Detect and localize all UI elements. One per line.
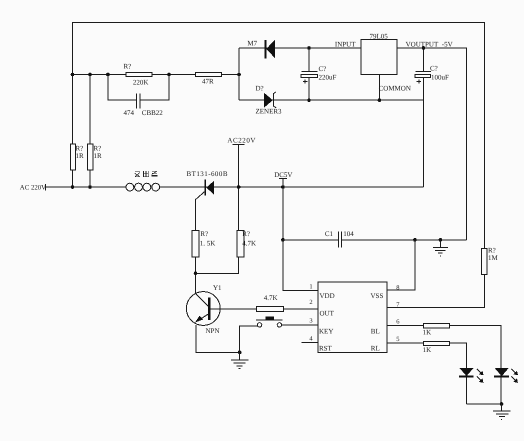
wire regulator output to V9 down <box>397 48 467 240</box>
node dot H2 x170 <box>167 73 171 77</box>
LED D left arrows <box>477 369 484 383</box>
svg-text:VOUTPUT -5V: VOUTPUT -5V <box>406 40 453 48</box>
svg-text:1K: 1K <box>423 329 432 337</box>
svg-text:INPUT: INPUT <box>335 40 356 48</box>
label 发热丝 (CJK approximated) <box>135 171 158 177</box>
resistor 4.7K horizontal <box>257 306 284 311</box>
svg-text:BL: BL <box>371 327 380 335</box>
terminal tick AC220V <box>233 143 245 145</box>
node dot 283,240 <box>281 238 285 242</box>
node dot 283,187 <box>281 185 285 189</box>
svg-text:1R: 1R <box>76 152 85 160</box>
node dot 195,273 <box>194 272 198 276</box>
svg-text:DC5V: DC5V <box>274 171 292 179</box>
svg-text:NPN: NPN <box>206 327 220 335</box>
wire DC5V stem down to pin1 <box>283 179 318 291</box>
wire AC220V stem down through 4.7K resistor <box>238 144 240 273</box>
svg-text:AC220V: AC220V <box>227 137 256 145</box>
LED D left <box>459 368 474 377</box>
capacitor C1 104 plates <box>339 232 342 248</box>
switch contacts <box>257 323 281 327</box>
node dot 309,48 <box>307 46 311 50</box>
ground G2 <box>231 352 248 368</box>
svg-text:1M: 1M <box>488 254 499 262</box>
wire AC main rail y187 <box>45 186 423 188</box>
svg-text:ZENER3: ZENER3 <box>256 108 283 116</box>
resistor 47R <box>195 73 221 77</box>
svg-text:COMMON: COMMON <box>379 84 411 92</box>
svg-text:VDD: VDD <box>320 292 335 300</box>
svg-text:220K: 220K <box>133 79 149 87</box>
wire emitter down and across <box>196 325 240 352</box>
wire switch right to pin3 <box>282 324 318 326</box>
node dot H2 x90 <box>88 73 92 77</box>
svg-text:Y1: Y1 <box>213 284 222 292</box>
wire zener line y100 <box>239 99 424 101</box>
op-amp U1 79L05 regulator box <box>361 40 397 75</box>
ground G1 <box>433 240 448 256</box>
svg-text:474: 474 <box>124 109 135 117</box>
svg-text:104: 104 <box>343 230 354 238</box>
wire rectifier left leg <box>238 48 240 100</box>
transistor Y1 NPN <box>186 292 220 326</box>
resistor R? 1R right <box>88 144 93 170</box>
wire C1 rail right segment <box>342 239 467 241</box>
svg-text:OUT: OUT <box>320 309 335 317</box>
node dot 238,187 <box>237 185 241 189</box>
svg-text:R?: R? <box>488 246 496 254</box>
wire C1 rail left segment <box>283 239 339 241</box>
capacitor CBB22 plates <box>136 93 140 108</box>
svg-text:BT131-600B: BT131-600B <box>187 170 228 178</box>
node dot H2 x239 <box>237 73 241 77</box>
terminal tick AC 220V <box>44 184 46 190</box>
svg-text:1K: 1K <box>423 346 432 354</box>
wire 1R second leg <box>89 75 91 188</box>
svg-text:100uF: 100uF <box>431 73 449 81</box>
resistor 1K upper <box>424 324 450 328</box>
wire pin4 stub <box>301 341 318 343</box>
svg-text:220uF: 220uF <box>319 73 337 81</box>
svg-text:C?: C? <box>319 65 327 73</box>
diode M7 <box>264 40 275 59</box>
IC U? box <box>318 282 387 352</box>
svg-text:C?: C? <box>430 65 438 73</box>
svg-text:R?: R? <box>124 63 132 71</box>
capacitor C? 100uF with rail down to DC rail <box>415 48 431 187</box>
resistor R? 1M inline on right rail <box>481 249 487 275</box>
plus sign C? 220uF <box>303 80 307 84</box>
svg-text:1. 5K: 1. 5K <box>200 240 216 248</box>
wire H7 bottom of divider <box>196 272 240 274</box>
svg-text:M7: M7 <box>247 39 257 47</box>
terminal tick DC5V <box>279 178 287 180</box>
node dot H2 x107 <box>106 73 110 77</box>
svg-text:3: 3 <box>309 318 312 325</box>
svg-text:RL: RL <box>371 344 380 352</box>
node dot 90,187 <box>88 185 92 189</box>
svg-text:CBB22: CBB22 <box>142 109 164 117</box>
node dot 414.9,240 <box>413 238 417 242</box>
wire top frame from node A to right rail <box>73 23 485 308</box>
svg-text:4.7K: 4.7K <box>264 294 278 302</box>
switch button bar <box>256 316 283 320</box>
wire pin8 VSS up to C1 rail <box>387 240 415 290</box>
svg-text:1: 1 <box>309 284 312 291</box>
resistor R? 1R left <box>70 144 75 170</box>
svg-text:VSS: VSS <box>371 292 384 300</box>
node dot 309,100 <box>307 98 311 102</box>
wire second rail y74 <box>73 74 240 76</box>
svg-text:79L05: 79L05 <box>370 32 389 40</box>
wire M7 line to regulator input <box>239 47 361 49</box>
svg-text:R?: R? <box>200 230 208 238</box>
resistor R? 220K <box>126 73 152 77</box>
svg-text:2: 2 <box>309 299 312 306</box>
svg-text:RST: RST <box>319 344 333 352</box>
node dot 501,404 <box>500 402 504 406</box>
svg-text:R?: R? <box>242 230 250 238</box>
diode D? ZENER3 <box>264 92 276 108</box>
wire pin6 through 1K to right LED <box>387 326 501 404</box>
svg-text:47R: 47R <box>202 78 214 86</box>
heater coil 发热丝 <box>126 183 160 191</box>
svg-text:D?: D? <box>256 84 264 92</box>
svg-text:AC 220V: AC 220V <box>20 185 46 192</box>
svg-text:1R: 1R <box>94 152 103 160</box>
wire snubber branch left <box>108 75 136 100</box>
wire base to pin2 through 4.7K <box>211 308 318 310</box>
node dot H2 x72 <box>71 73 75 77</box>
wire COMMON stem <box>378 74 380 100</box>
node dot 241,352 <box>238 351 242 355</box>
resistor 1K lower <box>424 341 450 345</box>
plus sign C? 100uF <box>417 80 421 84</box>
node dot 72,187 <box>71 185 75 189</box>
LED D right arrows <box>512 369 519 383</box>
svg-text:4.7K: 4.7K <box>242 240 256 248</box>
resistor R? 1.5K <box>192 230 199 257</box>
LED D right <box>494 368 509 377</box>
capacitor C? 220uF <box>301 48 317 100</box>
triac BT131-600B <box>205 180 214 196</box>
ground G3 <box>493 404 511 420</box>
wire switch left to ground leg <box>240 326 258 352</box>
wire triac gate <box>196 191 206 293</box>
wire pin5 through 1K to left LED <box>387 343 466 404</box>
resistor R? 4.7K vertical <box>237 230 244 257</box>
node dot 379,100 <box>378 98 382 102</box>
wire LED bottoms join <box>467 403 502 405</box>
node dot 423,48 <box>422 46 426 50</box>
wire snubber branch right <box>140 75 169 100</box>
svg-text:5: 5 <box>396 336 399 343</box>
svg-text:C1: C1 <box>325 230 334 238</box>
node dot 440,240 <box>439 238 443 242</box>
svg-text:KEY: KEY <box>319 327 333 335</box>
